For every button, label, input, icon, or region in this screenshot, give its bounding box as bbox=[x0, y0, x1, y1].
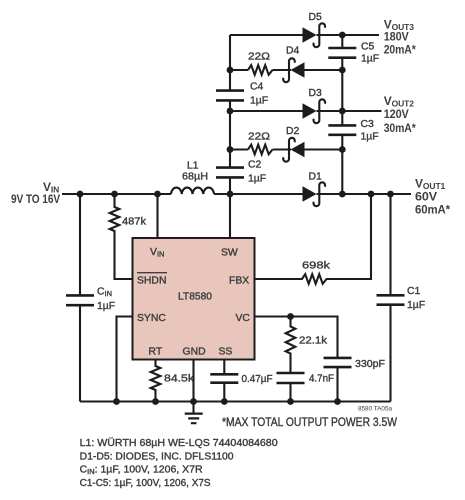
svg-text:D1: D1 bbox=[309, 172, 323, 183]
diode D2 bbox=[283, 126, 304, 162]
svg-text:D3: D3 bbox=[309, 88, 323, 99]
wire row A VOUT3 bbox=[230, 34, 379, 36]
svg-text:VC: VC bbox=[236, 313, 251, 324]
wire ground rail bbox=[80, 400, 391, 402]
junction rail-SYNC bbox=[113, 398, 120, 405]
svg-text:SYNC: SYNC bbox=[137, 313, 166, 324]
junction node VOUT1-ladder bbox=[339, 191, 346, 198]
svg-text:60mA*: 60mA* bbox=[415, 203, 450, 217]
junction rail-4.7nF bbox=[287, 398, 294, 405]
junction rail-330pF bbox=[334, 398, 341, 405]
junction node VIN-pin bbox=[154, 191, 161, 198]
junction node VOUT1-698k bbox=[368, 191, 375, 198]
wire C1 branch bbox=[389, 194, 391, 402]
resistor 84.5k / wire RT bbox=[151, 360, 195, 402]
svg-text:68µH: 68µH bbox=[182, 172, 208, 183]
svg-text:1µF: 1µF bbox=[250, 96, 268, 107]
wire SYNC net bbox=[117, 317, 133, 402]
junction rail-GND bbox=[190, 398, 197, 405]
wire CIN branch bbox=[79, 194, 81, 402]
wire SW pin bbox=[229, 194, 231, 238]
wire VC net bbox=[255, 317, 338, 402]
svg-text:487k: 487k bbox=[122, 217, 147, 228]
svg-text:1µF: 1µF bbox=[407, 300, 425, 311]
svg-text:D5: D5 bbox=[309, 12, 323, 23]
diode D1 bbox=[303, 172, 326, 207]
svg-text:330pF: 330pF bbox=[355, 359, 385, 370]
junction left-column row D bbox=[227, 146, 234, 153]
svg-text:FBX: FBX bbox=[229, 276, 249, 287]
IC U1 LT8580 bbox=[133, 238, 255, 360]
svg-text:SS: SS bbox=[219, 347, 233, 358]
capacitor C1 1uF bbox=[377, 286, 426, 311]
junction node VIN-CIN bbox=[77, 191, 84, 198]
capacitor CIN 1uF bbox=[66, 287, 115, 312]
svg-text:1µF: 1µF bbox=[97, 301, 115, 312]
svg-text:RT: RT bbox=[149, 347, 163, 358]
svg-text:1µF: 1µF bbox=[361, 132, 379, 143]
capacitor C4 1uF bbox=[216, 82, 268, 107]
svg-text:1µF: 1µF bbox=[361, 54, 379, 65]
junction left-column row B bbox=[227, 67, 234, 74]
svg-text:L1: WÜRTH 68µH WE-LQS 74404084: L1: WÜRTH 68µH WE-LQS 74404084680 bbox=[80, 437, 278, 449]
svg-text:C5: C5 bbox=[361, 42, 375, 53]
wire row E VOUT1 bbox=[230, 193, 411, 195]
svg-text:D2: D2 bbox=[286, 126, 300, 137]
svg-text:180V: 180V bbox=[384, 29, 409, 43]
junction right-column row A bbox=[339, 32, 346, 39]
node VOUT2 label bbox=[384, 94, 416, 135]
svg-text:1µF: 1µF bbox=[248, 174, 266, 185]
wire left ladder column bbox=[229, 35, 231, 194]
junction node SW-L1-C2 bbox=[227, 191, 234, 198]
capacitor C2 1uF bbox=[216, 160, 266, 185]
svg-text:60V: 60V bbox=[415, 190, 437, 204]
node VIN label bbox=[11, 180, 60, 206]
junction left-column row C bbox=[227, 108, 234, 115]
resistor 698k / wire FBX bbox=[255, 194, 372, 284]
svg-text:8580 TA05a: 8580 TA05a bbox=[358, 407, 393, 413]
svg-text:C1-C5: 1µF, 100V, 1206, X7S: C1-C5: 1µF, 100V, 1206, X7S bbox=[80, 478, 211, 489]
capacitor C3 1uF bbox=[328, 119, 378, 143]
svg-text:*MAX TOTAL OUTPUT POWER 3.5W: *MAX TOTAL OUTPUT POWER 3.5W bbox=[222, 415, 398, 429]
capacitor C5 1uF bbox=[328, 42, 379, 65]
svg-text:D4: D4 bbox=[286, 46, 300, 57]
capacitor 330pF bbox=[324, 358, 386, 370]
svg-text:4.7nF: 4.7nF bbox=[309, 374, 334, 385]
svg-text:C4: C4 bbox=[250, 82, 264, 93]
svg-text:22Ω: 22Ω bbox=[248, 132, 270, 143]
svg-text:VIN: VIN bbox=[150, 247, 164, 259]
ground bbox=[185, 414, 203, 424]
svg-text:SW: SW bbox=[221, 248, 238, 259]
svg-text:84.5k: 84.5k bbox=[164, 374, 195, 385]
wire VIN pin bbox=[156, 194, 158, 238]
wire row C VOUT2 bbox=[230, 110, 382, 112]
resistor 22ohm lower bbox=[248, 132, 273, 155]
junction node VOUT1-C1 bbox=[387, 191, 394, 198]
wire right ladder column bbox=[341, 35, 343, 194]
resistor 22.1k bbox=[286, 317, 328, 402]
svg-text:C2: C2 bbox=[248, 160, 262, 171]
wire SS pin bbox=[223, 360, 225, 402]
diode D5 bbox=[303, 12, 326, 47]
diode D3 bbox=[303, 88, 326, 123]
svg-text:22.1k: 22.1k bbox=[299, 336, 328, 347]
junction right-column row D bbox=[339, 146, 346, 153]
junction node VIN-487k bbox=[111, 191, 118, 198]
inductor L1 68uH bbox=[171, 161, 214, 194]
svg-text:698k: 698k bbox=[302, 261, 331, 272]
wire row D bbox=[230, 148, 342, 150]
junction node VC-22.1k bbox=[287, 313, 294, 320]
junction right-column row C bbox=[339, 108, 346, 115]
junction right-column row B bbox=[339, 67, 346, 74]
wire GND pin bbox=[192, 360, 194, 414]
svg-text:D1-D5: DIODES, INC. DFLS1100: D1-D5: DIODES, INC. DFLS1100 bbox=[80, 451, 234, 462]
svg-text:0.47µF: 0.47µF bbox=[242, 374, 273, 385]
svg-text:C3: C3 bbox=[361, 119, 375, 130]
svg-text:CIN: CIN bbox=[97, 287, 112, 299]
svg-text:120V: 120V bbox=[384, 107, 409, 121]
junction rail-RT bbox=[152, 398, 159, 405]
svg-text:22Ω: 22Ω bbox=[248, 52, 270, 63]
svg-text:CIN: 1µF, 100V, 1206, X7R: CIN: 1µF, 100V, 1206, X7R bbox=[80, 465, 204, 477]
capacitor 4.7nF bbox=[277, 373, 335, 385]
junction rail-SS bbox=[221, 398, 228, 405]
capacitor 0.47uF bbox=[210, 374, 272, 385]
wire VIN rail bbox=[62, 193, 230, 195]
node VOUT1 label bbox=[415, 177, 450, 217]
svg-text:20mA*: 20mA* bbox=[384, 43, 416, 57]
svg-text:L1: L1 bbox=[187, 161, 199, 172]
resistor 487k bbox=[110, 194, 147, 279]
node VOUT3 label bbox=[384, 17, 416, 56]
svg-text:SHDN: SHDN bbox=[137, 276, 166, 287]
diode D4 bbox=[283, 46, 304, 83]
svg-text:LT8580: LT8580 bbox=[178, 292, 212, 303]
svg-text:C1: C1 bbox=[407, 286, 421, 297]
svg-text:9V TO 16V: 9V TO 16V bbox=[11, 192, 60, 206]
resistor 22ohm upper bbox=[248, 52, 273, 75]
svg-text:GND: GND bbox=[183, 347, 206, 358]
wire row B bbox=[230, 69, 342, 71]
svg-text:30mA*: 30mA* bbox=[384, 121, 416, 135]
